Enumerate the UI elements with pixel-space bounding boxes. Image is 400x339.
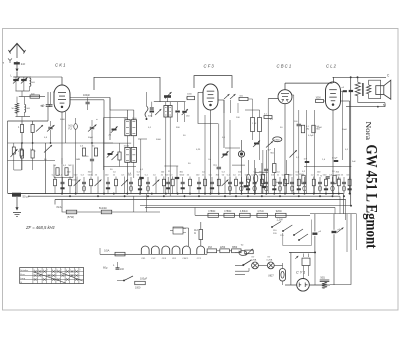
component row item 29 bbox=[251, 175, 256, 194]
heater label CBC1 bbox=[182, 258, 189, 260]
resistor RD1 1780Ω bbox=[208, 210, 219, 217]
component row item 12 bbox=[137, 171, 142, 193]
svg-text:C L 2: C L 2 bbox=[326, 64, 337, 69]
resistor RD4 4,7kΩ bbox=[257, 210, 268, 217]
capacitor C6 bbox=[214, 124, 222, 194]
diode arrows bbox=[224, 94, 236, 113]
switch S2 bbox=[293, 229, 308, 241]
svg-text:1780Ω: 1780Ω bbox=[208, 210, 215, 213]
value labels bbox=[30, 117, 356, 175]
label 1,2W bbox=[277, 218, 284, 222]
wire bbox=[104, 118, 137, 170]
wire bbox=[100, 253, 207, 255]
wire bbox=[292, 95, 294, 194]
wire bbox=[268, 99, 278, 194]
switch S1 bbox=[271, 222, 292, 238]
capacitor C-ant 2nF bbox=[14, 61, 26, 66]
wire bbox=[62, 112, 66, 194]
component row item 15 bbox=[161, 171, 166, 193]
resistor R6 bbox=[261, 150, 264, 194]
wire bbox=[127, 110, 133, 194]
label 0,5A bbox=[104, 249, 110, 253]
capacitor C11 50uF bbox=[12, 193, 30, 199]
component row item 1 bbox=[52, 175, 57, 194]
wire bbox=[218, 100, 224, 148]
lamp LA1 bbox=[251, 256, 268, 269]
heater label CK1 bbox=[141, 258, 146, 260]
svg-text:10000: 10000 bbox=[124, 146, 130, 148]
svg-text:4,7kΩ: 4,7kΩ bbox=[257, 210, 264, 213]
wire bbox=[289, 252, 316, 285]
component row item 30 bbox=[259, 171, 264, 193]
antenna arrow bbox=[11, 65, 19, 78]
label 60u bbox=[103, 264, 115, 269]
resistor RJ bbox=[275, 160, 289, 194]
resistor R23 20000 bbox=[31, 143, 37, 170]
svg-text:60μ: 60μ bbox=[103, 265, 108, 269]
wire bbox=[195, 214, 310, 216]
label M2 bbox=[69, 165, 78, 182]
wire bbox=[207, 251, 244, 255]
component row item 8 bbox=[105, 175, 110, 194]
svg-text:Nora: Nora bbox=[364, 122, 373, 141]
heater label CY1 bbox=[197, 258, 202, 260]
coil L1 bbox=[30, 78, 36, 91]
svg-text:1000: 1000 bbox=[135, 287, 141, 290]
component row item 14 bbox=[153, 175, 160, 194]
svg-text:C K 1: C K 1 bbox=[55, 63, 65, 68]
mid arrow bbox=[36, 125, 43, 132]
component row item 36 bbox=[296, 171, 301, 193]
IF transformer IF1b bbox=[124, 146, 137, 163]
component row item 35 bbox=[289, 175, 294, 194]
wire bbox=[48, 92, 54, 98]
trimmer cap T9 bbox=[182, 102, 191, 122]
svg-text:100μF: 100μF bbox=[140, 278, 148, 281]
svg-text:5000: 5000 bbox=[60, 119, 66, 121]
svg-text:C Y 1: C Y 1 bbox=[296, 270, 305, 274]
svg-text:ZF = 468,5 kHz: ZF = 468,5 kHz bbox=[25, 225, 56, 230]
capacitor C13 bbox=[332, 214, 344, 285]
svg-text:C B C 1: C B C 1 bbox=[277, 64, 292, 69]
bus line 3 bbox=[55, 199, 346, 201]
svg-text:3850: 3850 bbox=[232, 247, 238, 249]
svg-text:2nF: 2nF bbox=[21, 62, 26, 66]
component row item 13 bbox=[145, 175, 150, 194]
lamp jack bbox=[238, 140, 244, 194]
table header bbox=[34, 270, 81, 272]
resistor R5 bbox=[118, 143, 121, 166]
bus hook left bbox=[54, 200, 56, 205]
wire bbox=[210, 110, 212, 194]
capacitor C5 bbox=[74, 118, 78, 194]
svg-text:Schalter: Schalter bbox=[20, 269, 28, 272]
output transformer TR1 bbox=[355, 77, 380, 102]
tube CK1 bbox=[54, 85, 70, 112]
bus line 4 bbox=[140, 205, 352, 207]
svg-text:3nF: 3nF bbox=[352, 161, 356, 163]
coil L1b bbox=[24, 97, 30, 117]
svg-text:CBC1: CBC1 bbox=[182, 258, 189, 260]
svg-text:1780Ω: 1780Ω bbox=[224, 210, 231, 213]
capacitor C15 bbox=[116, 262, 125, 271]
wire bbox=[334, 207, 336, 213]
resistor R15 112 bbox=[194, 222, 203, 246]
svg-text:50 μF: 50 μF bbox=[23, 195, 30, 199]
mid resistor Rb bbox=[92, 146, 98, 157]
component row item 23 bbox=[216, 175, 221, 194]
trimmer cap T7 bbox=[164, 92, 172, 99]
component row item 44 bbox=[346, 175, 351, 194]
svg-text:Ω: Ω bbox=[194, 232, 196, 235]
label ZF bbox=[25, 225, 56, 230]
antenna bbox=[9, 44, 26, 59]
oscillator coil L2 bbox=[14, 143, 23, 170]
IF transformer IF1a bbox=[124, 118, 138, 136]
label 8mA bbox=[57, 206, 62, 209]
svg-text:MΩ: MΩ bbox=[306, 129, 310, 131]
svg-text:0,5A: 0,5A bbox=[104, 249, 110, 253]
resistor R16 1000 bbox=[135, 281, 146, 289]
lamp LA2 bbox=[267, 256, 283, 269]
bus line 5 bbox=[145, 206, 335, 208]
capacitor Ca bbox=[246, 160, 250, 194]
resistor R20 500 bbox=[238, 96, 253, 114]
resistor RH2 2250 bbox=[220, 247, 230, 253]
svg-text:1MΩ: 1MΩ bbox=[76, 159, 81, 161]
svg-text:100pF: 100pF bbox=[83, 94, 91, 97]
component row item 37 bbox=[301, 175, 306, 194]
ground bbox=[13, 197, 21, 217]
component row item 43 bbox=[341, 175, 346, 194]
svg-text:1,2W: 1,2W bbox=[277, 218, 284, 222]
resistor R7 bbox=[273, 148, 276, 194]
svg-text:G: G bbox=[20, 282, 22, 284]
capacitor Cb bbox=[254, 168, 258, 194]
capacitor C12 bbox=[312, 214, 321, 253]
capacitor C18 bbox=[86, 143, 94, 176]
wave trap bbox=[145, 92, 148, 120]
antenna input Y bbox=[3, 59, 13, 66]
tube U827 bbox=[268, 269, 286, 282]
switch frame bbox=[283, 220, 312, 246]
tube CL2 bbox=[326, 82, 341, 110]
wire bbox=[229, 120, 231, 194]
wire bbox=[8, 117, 49, 194]
svg-text:1 nF: 1 nF bbox=[252, 123, 257, 125]
resistor R13 57W bbox=[66, 210, 77, 219]
resistor R22 50000 bbox=[18, 143, 24, 170]
heater winding CY1 bbox=[197, 246, 205, 254]
bus junction dots bbox=[61, 193, 350, 197]
label M03 bbox=[69, 125, 74, 131]
wire bbox=[332, 110, 334, 194]
label 100uF bbox=[140, 278, 148, 281]
capacitor C17 bbox=[175, 102, 180, 122]
resistor R2 bbox=[18, 121, 24, 143]
component row item 33 bbox=[277, 171, 282, 193]
component row item 16 bbox=[165, 175, 170, 194]
svg-text:1000: 1000 bbox=[316, 98, 322, 100]
wire bbox=[310, 214, 356, 252]
capacitor blob row2 bbox=[262, 186, 267, 188]
wire bbox=[340, 194, 346, 220]
wire bbox=[173, 228, 189, 246]
component row item 19 bbox=[187, 175, 192, 194]
trimmer cap T3 bbox=[222, 151, 229, 158]
component row item 22 bbox=[209, 175, 214, 194]
svg-text:2250: 2250 bbox=[220, 247, 226, 249]
tube CF3 label bbox=[204, 64, 215, 69]
wire bbox=[99, 248, 101, 254]
wire bbox=[346, 103, 386, 108]
wire bbox=[235, 274, 245, 276]
fuse F1 bbox=[115, 252, 125, 256]
wire bbox=[54, 158, 73, 178]
wire top C bbox=[333, 74, 391, 78]
mains selector bbox=[295, 254, 310, 279]
wire top IF1 bbox=[110, 98, 134, 111]
resistor R17 1000 bbox=[186, 94, 195, 100]
component row item 38 bbox=[311, 175, 316, 194]
variable capacitor CV1 bbox=[47, 121, 55, 143]
trimmer cap T6 bbox=[107, 151, 119, 160]
resistor R10 bbox=[301, 125, 309, 133]
svg-text:ω: ω bbox=[96, 119, 98, 121]
component row item 42 bbox=[336, 171, 341, 193]
resistor R9 bbox=[314, 110, 316, 194]
resistor R8 bbox=[305, 110, 307, 194]
resistor RH3 3850 bbox=[232, 247, 242, 253]
wire bbox=[94, 77, 160, 101]
wire bbox=[285, 83, 333, 90]
coil L2h 500 bbox=[30, 94, 40, 99]
svg-text:8x14Ω: 8x14Ω bbox=[99, 206, 107, 210]
tube CBC1 label bbox=[277, 64, 292, 69]
wire bbox=[45, 143, 47, 194]
component row item 26 bbox=[233, 175, 238, 194]
component row item 41 bbox=[329, 175, 334, 194]
arrow A2 bbox=[44, 145, 52, 153]
capacitor C3 100pF bbox=[83, 94, 91, 110]
component row item 17 bbox=[170, 175, 175, 194]
wire bbox=[225, 148, 268, 172]
resistor R19 bbox=[63, 165, 68, 175]
svg-text:0,1μF: 0,1μF bbox=[308, 135, 314, 137]
trimmer cap T8 bbox=[155, 109, 161, 115]
speaker SP bbox=[376, 80, 391, 99]
resistor RD5 920Ω bbox=[276, 210, 287, 217]
component row item 5 bbox=[81, 175, 86, 194]
component row item 34 bbox=[282, 175, 287, 194]
tube CBC1 bbox=[278, 90, 292, 104]
capacitor C9 bbox=[341, 87, 347, 160]
heater label CL2 bbox=[151, 258, 156, 260]
svg-text:4,80kΩ: 4,80kΩ bbox=[240, 210, 248, 213]
component row item 31 bbox=[263, 175, 268, 194]
wire bbox=[194, 76, 232, 88]
resistor R11 bbox=[312, 125, 320, 133]
capacitor C2 bbox=[41, 98, 51, 121]
wire bbox=[255, 160, 262, 194]
switch S3 bbox=[235, 260, 252, 266]
wire bbox=[198, 92, 218, 123]
wire bbox=[235, 268, 249, 271]
label 1M bbox=[44, 159, 81, 161]
component row item 40 bbox=[323, 175, 328, 194]
trimmer cap T4 bbox=[253, 141, 260, 148]
wire bbox=[282, 263, 284, 285]
motor box bbox=[170, 227, 186, 234]
component row item 3 bbox=[67, 171, 72, 193]
svg-text:Lang: Lang bbox=[20, 278, 26, 280]
potentiometer P1 0,5MOhm bbox=[266, 137, 282, 155]
component row item 11 bbox=[128, 175, 133, 194]
svg-text:MΩ: MΩ bbox=[271, 153, 275, 155]
capacitor C10 bbox=[349, 90, 353, 92]
resistor RH1 453 bbox=[207, 247, 217, 253]
tube CY1 bbox=[297, 279, 310, 292]
trimmer capacitor T1 bbox=[13, 77, 20, 91]
component row item 10 bbox=[121, 175, 128, 194]
mid resistor Ra bbox=[80, 146, 86, 157]
capacitor C8 bbox=[290, 110, 352, 194]
svg-text:50pF: 50pF bbox=[88, 137, 94, 139]
wire bbox=[333, 77, 335, 83]
svg-text:2nF: 2nF bbox=[120, 268, 125, 271]
wire bbox=[341, 101, 350, 194]
RC network bbox=[320, 276, 330, 288]
svg-text:50Ω: 50Ω bbox=[320, 276, 325, 279]
wire bbox=[284, 104, 286, 194]
component row item 32 bbox=[271, 175, 276, 194]
heater windings bbox=[141, 246, 190, 254]
component row item 28 bbox=[245, 175, 250, 194]
resistor R21 bbox=[264, 114, 272, 119]
capacitor C16 bbox=[148, 102, 154, 118]
component row item 24 bbox=[222, 171, 229, 193]
resistor R-ant bbox=[12, 97, 19, 117]
svg-text:C F 3: C F 3 bbox=[204, 64, 215, 69]
resistor RD3 4,80kΩ bbox=[240, 210, 251, 217]
resistor R3 bbox=[31, 121, 34, 143]
component row item 25 bbox=[227, 175, 232, 194]
tube CL2 label bbox=[326, 64, 337, 69]
capacitor C7 bbox=[264, 150, 269, 194]
wire bbox=[8, 142, 114, 160]
component row item 18 bbox=[180, 171, 185, 193]
resistor R12 1000 bbox=[316, 98, 326, 103]
wire bbox=[154, 98, 186, 102]
capacitor C14 bbox=[235, 245, 247, 256]
trimmer resistor RH4 bbox=[245, 249, 254, 256]
component row item 2 bbox=[59, 175, 64, 194]
heater label CF3 bbox=[162, 258, 167, 260]
heater label CF1 bbox=[172, 258, 177, 260]
wire grid lines CK1 bbox=[70, 98, 110, 194]
trimmer capacitor T2 bbox=[21, 77, 28, 91]
trimmer cap T5 bbox=[109, 126, 118, 136]
wire bbox=[330, 214, 351, 285]
svg-text:(57W): (57W) bbox=[67, 215, 74, 219]
component row item 39 bbox=[317, 171, 322, 193]
component row item 27 bbox=[238, 171, 243, 193]
svg-text:0,29A: 0,29A bbox=[251, 258, 257, 261]
wire bbox=[138, 139, 179, 194]
svg-text:8mA: 8mA bbox=[57, 206, 62, 209]
resistor RD2 1780Ω bbox=[224, 210, 235, 217]
variable capacitor CV2 bbox=[88, 120, 97, 143]
wire bbox=[285, 252, 330, 285]
component row item 9 bbox=[113, 171, 118, 193]
svg-text:0,29A: 0,29A bbox=[267, 258, 273, 261]
tube CY1 label bbox=[296, 270, 305, 274]
svg-text:50nF: 50nF bbox=[342, 129, 348, 131]
svg-text:U827: U827 bbox=[268, 275, 274, 278]
wire bbox=[350, 77, 358, 207]
coil IF2 bbox=[245, 110, 262, 160]
resistor R14 8x14 bbox=[99, 206, 112, 214]
svg-text:5000: 5000 bbox=[156, 139, 162, 141]
svg-text:920Ω: 920Ω bbox=[276, 210, 282, 213]
station table bbox=[20, 268, 84, 284]
bus line 2 bbox=[28, 195, 340, 197]
wire bbox=[204, 115, 206, 194]
svg-text:25nF: 25nF bbox=[317, 127, 323, 129]
wire bbox=[61, 77, 63, 85]
component row item 21 bbox=[202, 171, 207, 193]
oscillator coil L3 bbox=[164, 102, 172, 197]
svg-text:0,5MΩ: 0,5MΩ bbox=[274, 139, 280, 141]
svg-text:Kurz: Kurz bbox=[20, 273, 25, 276]
component row item 7 bbox=[95, 175, 102, 194]
component row item 20 bbox=[196, 175, 201, 194]
wire bbox=[62, 200, 160, 213]
bus line 1 bbox=[8, 193, 344, 195]
resistor R4 bbox=[11, 143, 18, 170]
component row item 4 bbox=[74, 175, 81, 194]
wire bbox=[194, 207, 196, 215]
capacitor blob row1 bbox=[244, 185, 249, 187]
resistor R18 bbox=[54, 165, 60, 175]
svg-text:GW 451 L Egmont: GW 451 L Egmont bbox=[363, 145, 380, 250]
wire bbox=[13, 76, 62, 78]
capacitor C4 bbox=[42, 92, 53, 108]
component row item 6 bbox=[88, 171, 93, 193]
tube CK1 label bbox=[55, 63, 65, 68]
tube CF3 bbox=[203, 84, 218, 110]
wire bbox=[134, 194, 147, 212]
wire bbox=[16, 91, 46, 97]
switch S4 bbox=[117, 276, 133, 281]
